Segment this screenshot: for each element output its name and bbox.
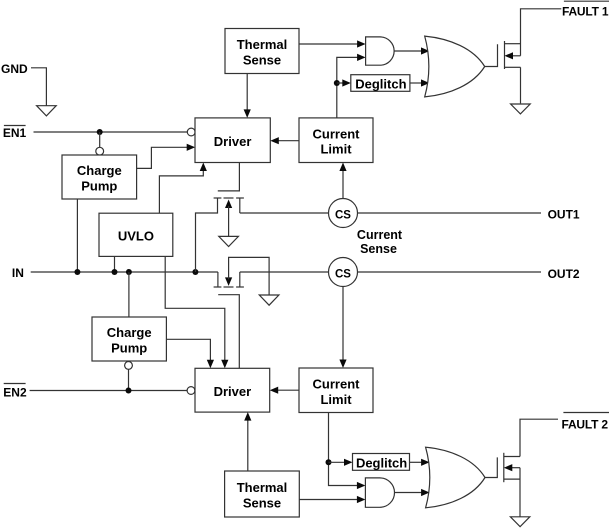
ground (GND pin) <box>37 106 57 116</box>
node Current Limit 2 / Deglitch 2 branch <box>326 459 332 465</box>
wire Charge Pump 1 to IN <box>76 199 78 272</box>
svg-text:Current: Current <box>313 126 361 141</box>
inverter bubble at Charge Pump 2 input <box>125 362 133 370</box>
wire Deglitch 2 to OR 2 <box>410 459 430 466</box>
driver 2 block <box>195 368 270 412</box>
charge pump 1 block <box>62 155 137 199</box>
current sense CS1 <box>329 199 358 228</box>
node IN/ChargePump1 <box>74 269 80 275</box>
wire Deglitch 1 to OR 1 <box>410 79 430 86</box>
ground (FAULT FET 2 source) <box>510 517 529 527</box>
UVLO block <box>99 213 173 256</box>
OR gate U2 <box>425 36 485 97</box>
wire EN2 to Driver 2 bubble <box>30 390 188 392</box>
svg-text:Deglitch: Deglitch <box>355 77 406 92</box>
svg-text:FAULT 1: FAULT 1 <box>562 5 609 19</box>
node EN2/ChargePump2 junction <box>126 388 132 394</box>
wire IN to Charge Pump 2 <box>128 272 130 317</box>
deglitch 2 block <box>353 454 410 471</box>
transistor Q1 (FAULT 1 open-drain FET) <box>505 41 521 69</box>
current limit 2 block <box>299 368 373 413</box>
wire Current Limit 2 to Driver 2 <box>270 387 299 394</box>
wire OR 2 to FAULT FET 2 gate <box>485 457 497 477</box>
wire AND 2 to OR 2 <box>394 489 430 496</box>
svg-text:Driver: Driver <box>214 384 252 399</box>
ground (FAULT FET 1 source) <box>511 104 531 114</box>
driver 1 block <box>195 118 270 163</box>
svg-text:Thermal: Thermal <box>237 480 288 495</box>
svg-text:Charge: Charge <box>77 163 122 178</box>
svg-text:GND: GND <box>1 62 28 76</box>
transistor Q4 (OUT2 pass FET) <box>214 257 270 368</box>
wire OR 1 to FAULT FET 1 gate <box>485 44 498 66</box>
wire OUT1 rail <box>240 212 541 214</box>
wire OUT2 rail <box>240 271 541 273</box>
svg-text:Sense: Sense <box>360 242 397 256</box>
inverter bubble at Driver 2 EN input <box>187 387 195 395</box>
svg-text:Thermal: Thermal <box>237 37 288 52</box>
FAULT 2 pin label <box>562 413 609 432</box>
current sense CS2 <box>329 258 358 287</box>
svg-text:Driver: Driver <box>214 134 252 149</box>
svg-text:Pump: Pump <box>81 179 117 194</box>
svg-text:EN1: EN1 <box>3 126 27 140</box>
wire IN rail <box>31 271 218 273</box>
FAULT 1 pin label <box>562 1 609 19</box>
node IN/FET1 <box>192 269 198 275</box>
AND gate U1 <box>366 37 395 65</box>
EN1 pin label <box>3 126 27 141</box>
node EN1/ChargePump1 junction <box>97 129 103 135</box>
IN pin label <box>12 266 24 280</box>
svg-text:Pump: Pump <box>111 341 147 356</box>
wire branch to Deglitch 1 <box>337 79 351 86</box>
inverter bubble at Charge Pump 1 input <box>96 147 104 155</box>
wire Thermal Sense 2 to AND 2 <box>299 496 365 503</box>
thermal sense 2 block <box>225 471 300 517</box>
svg-text:Deglitch: Deglitch <box>356 456 407 471</box>
svg-text:CS: CS <box>335 209 351 221</box>
wire UVLO output to Driver 1 <box>159 163 207 214</box>
transistor Q2 (FAULT 2 open-drain FET) <box>504 453 520 482</box>
svg-text:UVLO: UVLO <box>118 229 154 244</box>
wire AND 1 to OR 1 <box>394 47 429 54</box>
wire FAULT1 drain and source rail <box>521 9 562 104</box>
node IN/UVLO <box>112 269 118 275</box>
wire Current Limit 1 up to AND 1 <box>337 54 366 118</box>
svg-text:Sense: Sense <box>243 52 281 67</box>
svg-text:Current: Current <box>357 228 403 242</box>
transistor Q3 (OUT1 pass FET) <box>196 163 244 273</box>
wire Current Limit 1 to Driver 1 <box>270 137 299 144</box>
wire FAULT2 drain and source rail <box>520 419 558 517</box>
svg-text:Limit: Limit <box>320 142 352 157</box>
current sense label <box>357 228 403 256</box>
svg-text:FAULT 2: FAULT 2 <box>562 417 609 431</box>
wire Thermal Sense 1 to Driver 1 <box>244 74 251 118</box>
GND pin label <box>1 62 28 76</box>
wire UVLO output to Driver 2 <box>165 256 228 368</box>
svg-text:CS: CS <box>335 268 351 280</box>
wire Charge Pump 1 output to Driver 1 <box>137 144 196 169</box>
OR gate U4 <box>426 447 485 508</box>
svg-text:IN: IN <box>12 266 24 280</box>
wire Current Limit 2 down to AND 2 <box>329 413 366 490</box>
wire CS1 to Current Limit 1 <box>339 163 346 199</box>
deglitch 1 block <box>351 75 410 92</box>
svg-text:Sense: Sense <box>243 496 281 511</box>
inverter bubble at Driver 1 EN input <box>187 128 195 136</box>
wire GND to ground <box>31 68 46 106</box>
node IN/ChargePump2 <box>126 269 132 275</box>
svg-text:EN2: EN2 <box>3 386 27 400</box>
AND gate U3 <box>365 478 394 507</box>
ground (OUT2 FET body) <box>259 295 279 305</box>
thermal sense 1 block <box>225 29 299 74</box>
svg-text:Charge: Charge <box>107 325 152 340</box>
wire Charge Pump 2 output to Driver 2 <box>166 339 214 368</box>
wire branch to Deglitch 2 <box>329 459 353 466</box>
EN2 pin label <box>3 384 27 400</box>
OUT1 pin label <box>548 208 580 222</box>
svg-text:OUT1: OUT1 <box>548 208 580 222</box>
wire CS2 to Current Limit 2 <box>339 287 346 369</box>
charge pump 2 block <box>92 317 166 361</box>
current limit 1 block <box>299 118 373 163</box>
node Current Limit 1 / Deglitch 1 branch <box>334 80 340 86</box>
wire Charge Pump 2 bubble to EN2 <box>128 369 130 390</box>
OUT2 pin label <box>548 267 580 281</box>
svg-text:Limit: Limit <box>320 392 352 407</box>
wire EN1 to Driver bubble <box>34 131 188 133</box>
svg-text:Current: Current <box>313 376 361 391</box>
wire Thermal Sense 1 to AND 1 <box>299 40 366 47</box>
wire EN1 junction down to Charge Pump 1 bubble <box>99 132 101 147</box>
wire UVLO to IN <box>114 256 116 272</box>
wire Thermal Sense 2 to Driver 2 <box>244 412 251 471</box>
ground (OUT1 FET body) <box>219 236 239 246</box>
svg-text:OUT2: OUT2 <box>548 267 580 281</box>
